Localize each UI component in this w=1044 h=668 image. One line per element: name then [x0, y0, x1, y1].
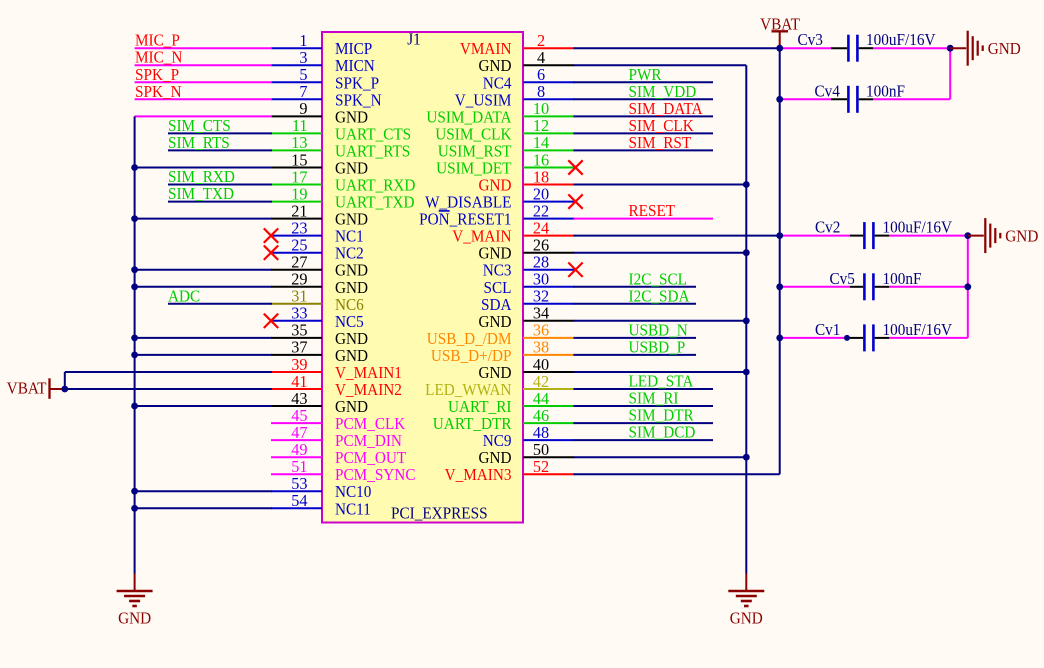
svg-text:SIM_RTS: SIM_RTS [168, 134, 230, 152]
svg-text:SIM_CTS: SIM_CTS [168, 117, 231, 135]
svg-text:UART_TXD: UART_TXD [335, 194, 415, 212]
svg-text:100uF/16V: 100uF/16V [866, 32, 936, 50]
svg-text:100nF: 100nF [883, 270, 922, 288]
svg-text:SIM_RXD: SIM_RXD [168, 169, 235, 187]
svg-text:USIM_DET: USIM_DET [436, 160, 512, 178]
svg-text:PCI_EXPRESS: PCI_EXPRESS [391, 505, 488, 523]
svg-text:NC11: NC11 [335, 501, 371, 519]
svg-text:MIC_N: MIC_N [135, 49, 183, 67]
svg-text:SIM_DATA: SIM_DATA [629, 100, 704, 118]
svg-text:SPK_P: SPK_P [335, 75, 379, 93]
svg-text:GND: GND [335, 279, 368, 297]
svg-text:PON_RESET1: PON_RESET1 [419, 211, 511, 229]
svg-text:100uF/16V: 100uF/16V [883, 321, 953, 339]
svg-text:NC2: NC2 [335, 245, 364, 263]
svg-text:USBD_N: USBD_N [629, 322, 689, 340]
svg-text:V_MAIN2: V_MAIN2 [335, 382, 402, 400]
svg-text:SIM_VDD: SIM_VDD [629, 83, 697, 101]
svg-text:SPK_P: SPK_P [135, 66, 179, 84]
svg-text:Cv4: Cv4 [815, 83, 840, 101]
svg-text:VBAT: VBAT [7, 380, 47, 398]
svg-text:GND: GND [335, 160, 368, 178]
svg-text:V_MAIN1: V_MAIN1 [335, 365, 402, 383]
svg-text:GND: GND [478, 450, 511, 468]
svg-text:SIM_RI: SIM_RI [629, 390, 679, 408]
svg-text:52: 52 [533, 457, 549, 476]
svg-text:GND: GND [335, 262, 368, 280]
svg-text:GND: GND [478, 365, 511, 383]
svg-text:GND: GND [988, 41, 1021, 59]
svg-text:SDA: SDA [481, 296, 512, 314]
svg-text:SCL: SCL [484, 279, 512, 297]
svg-text:GND: GND [478, 313, 511, 331]
svg-text:GND: GND [335, 211, 368, 229]
svg-text:NC10: NC10 [335, 484, 372, 502]
svg-text:NC3: NC3 [483, 262, 512, 280]
svg-text:LED_STA: LED_STA [629, 373, 694, 391]
svg-text:PCM_SYNC: PCM_SYNC [335, 467, 415, 485]
svg-text:GND: GND [118, 610, 151, 628]
svg-text:SIM_DTR: SIM_DTR [629, 407, 695, 425]
svg-text:USIM_DATA: USIM_DATA [426, 109, 512, 127]
svg-text:ADC: ADC [168, 288, 200, 306]
svg-text:I2C_SCL: I2C_SCL [629, 271, 687, 289]
svg-text:Cv3: Cv3 [798, 32, 823, 50]
svg-text:NC6: NC6 [335, 296, 364, 314]
svg-text:UART_CTS: UART_CTS [335, 126, 411, 144]
svg-text:Cv5: Cv5 [830, 270, 855, 288]
svg-text:NC9: NC9 [483, 433, 512, 451]
svg-text:GND: GND [335, 109, 368, 127]
svg-text:SIM_CLK: SIM_CLK [629, 117, 695, 135]
svg-text:GND: GND [1005, 228, 1038, 246]
svg-text:GND: GND [730, 610, 763, 628]
svg-text:SPK_N: SPK_N [335, 92, 382, 110]
svg-text:RESET: RESET [629, 203, 676, 221]
svg-text:GND: GND [335, 399, 368, 417]
svg-text:V_MAIN: V_MAIN [452, 228, 512, 246]
svg-text:W_DISABLE: W_DISABLE [425, 194, 511, 212]
svg-text:SIM_RST: SIM_RST [629, 134, 692, 152]
svg-text:USIM_RST: USIM_RST [438, 143, 512, 161]
svg-text:I2C_SDA: I2C_SDA [629, 288, 691, 306]
svg-text:MICP: MICP [335, 41, 372, 59]
svg-text:UART_RI: UART_RI [448, 399, 511, 417]
svg-text:PCM_CLK: PCM_CLK [335, 416, 406, 434]
svg-text:NC5: NC5 [335, 313, 364, 331]
svg-text:USB_D_/DM: USB_D_/DM [427, 330, 512, 348]
svg-text:PCM_OUT: PCM_OUT [335, 450, 406, 468]
svg-text:GND: GND [478, 177, 511, 195]
svg-text:V_USIM: V_USIM [455, 92, 512, 110]
svg-text:UART_RXD: UART_RXD [335, 177, 415, 195]
svg-text:LED_WWAN: LED_WWAN [425, 382, 512, 400]
svg-text:100uF/16V: 100uF/16V [883, 219, 953, 237]
svg-text:GND: GND [335, 330, 368, 348]
svg-text:UART_DTR: UART_DTR [433, 416, 512, 434]
svg-text:USBD_P: USBD_P [629, 339, 686, 357]
svg-text:UART_RTS: UART_RTS [335, 143, 410, 161]
svg-text:PCM_DIN: PCM_DIN [335, 433, 402, 451]
svg-text:NC4: NC4 [483, 75, 512, 93]
svg-text:VBAT: VBAT [760, 16, 800, 34]
svg-text:Cv2: Cv2 [815, 219, 840, 237]
svg-text:100nF: 100nF [866, 83, 905, 101]
svg-text:MICN: MICN [335, 58, 375, 76]
svg-text:USB_D+/DP: USB_D+/DP [431, 347, 512, 365]
svg-text:SIM_DCD: SIM_DCD [629, 424, 696, 442]
svg-text:V_MAIN3: V_MAIN3 [445, 467, 512, 485]
svg-text:SPK_N: SPK_N [135, 83, 182, 101]
svg-text:NC1: NC1 [335, 228, 364, 246]
svg-text:Cv1: Cv1 [815, 321, 840, 339]
svg-text:GND: GND [335, 347, 368, 365]
svg-text:GND: GND [478, 58, 511, 76]
svg-text:SIM_TXD: SIM_TXD [168, 186, 234, 204]
svg-text:54: 54 [291, 491, 307, 510]
svg-text:J1: J1 [407, 31, 421, 49]
svg-text:USIM_CLK: USIM_CLK [435, 126, 512, 144]
svg-text:VMAIN: VMAIN [460, 41, 512, 59]
svg-text:MIC_P: MIC_P [135, 32, 180, 50]
svg-text:GND: GND [478, 245, 511, 263]
svg-text:PWR: PWR [629, 66, 662, 84]
